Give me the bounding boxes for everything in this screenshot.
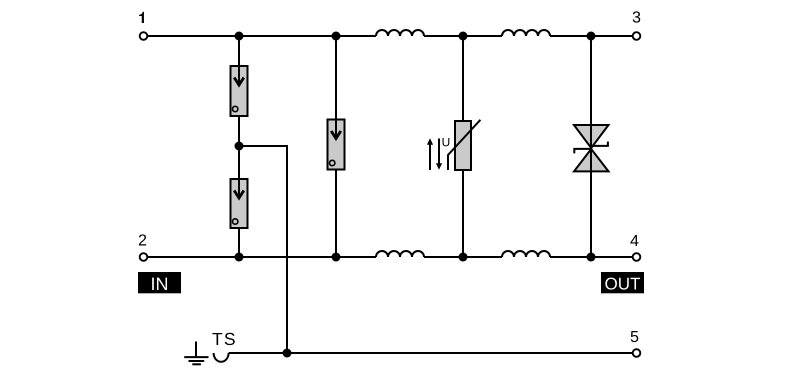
wire bottom line between L3 and L4 — [424, 256, 502, 258]
wire from F3 to bottom line — [335, 170, 337, 258]
varistor RV1 — [448, 120, 480, 170]
node junction between F1 and F2 — [235, 142, 244, 151]
wire top line from L2 to terminal 3 — [550, 35, 633, 37]
wire top line between L1 and L2 — [424, 35, 502, 37]
wire middle arrester branch top segment — [335, 36, 337, 120]
label TS — [212, 333, 234, 345]
node bottom line at F3 branch — [332, 253, 341, 262]
wire varistor branch top segment — [462, 36, 464, 121]
terminal 5 — [633, 349, 641, 357]
ground symbol — [184, 342, 208, 365]
wire from F2 to bottom line — [238, 228, 240, 257]
wire top line from terminal 1 to inductor L1 — [148, 35, 377, 37]
wire bottom line from L4 to terminal 4 — [550, 256, 633, 258]
label 3 — [633, 11, 641, 22]
surge arrester F3 (middle gas discharge tube) — [328, 120, 345, 170]
wire left arrester branch top segment — [238, 36, 240, 66]
label OUT — [601, 272, 644, 293]
label 5 — [631, 331, 639, 342]
surge arrester F2 (lower gas discharge tube) — [231, 179, 248, 228]
inductor L1 (top left coil) — [376, 30, 424, 36]
node bottom line at F2 branch — [235, 253, 244, 262]
inductor L2 (top right coil) — [502, 30, 550, 36]
wire through suppressor to bottom line — [590, 125, 592, 257]
terminal 4 — [633, 253, 641, 261]
node top line at varistor branch — [459, 32, 468, 41]
suppressor diode V1 (bidirectional TVS) — [574, 125, 609, 171]
terminal 3 — [633, 32, 641, 40]
wire from mid node to ground branch — [239, 146, 287, 353]
terminal 2 — [140, 253, 148, 261]
label U with voltage arrows — [427, 138, 449, 170]
node bottom line at varistor branch — [459, 253, 468, 262]
node top line at F1 branch — [235, 32, 244, 41]
node bottom line at suppressor branch — [587, 253, 596, 262]
wire between arresters F1 and F2 — [238, 116, 240, 179]
disconnect point TS (arc) — [214, 353, 229, 362]
wire ground line to terminal 5 — [229, 352, 633, 354]
inductor L4 (bottom right coil) — [502, 251, 550, 257]
label IN — [138, 272, 181, 293]
label 1 — [139, 12, 144, 23]
label 4 — [630, 235, 638, 246]
node ground line at crossing branch — [283, 349, 292, 358]
wire suppressor branch top segment — [590, 36, 592, 125]
wire from varistor to bottom line — [462, 170, 464, 257]
surge arrester F1 (upper gas discharge tube) — [231, 66, 248, 116]
terminal 1 — [140, 32, 148, 40]
wire bottom line from terminal 2 to inductor L3 — [148, 256, 377, 258]
node top line at suppressor branch — [587, 32, 596, 41]
node top line at F3 branch — [332, 32, 341, 41]
label 2 — [139, 234, 146, 245]
inductor L3 (bottom left coil) — [376, 251, 424, 257]
